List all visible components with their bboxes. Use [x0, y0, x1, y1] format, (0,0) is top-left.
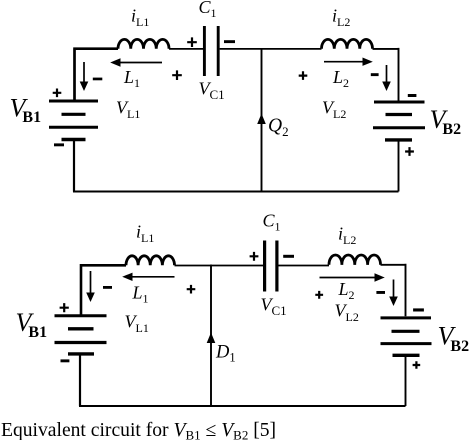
- current arrow i_L2 (pointing right, bottom circuit): [320, 273, 385, 281]
- diode D1 arrowhead (current up): [207, 333, 216, 344]
- label minus (V_L2 right, bottom circuit): [376, 291, 385, 294]
- wire V_B1 bottom to bottom rail: [73, 140, 75, 192]
- inductor L1 (top circuit): [118, 39, 169, 48]
- label plus (V_B1 top): [53, 89, 62, 98]
- label plus (V_L1 right): [172, 70, 182, 80]
- wire C1 to node (mid junction) to L2: [220, 48, 322, 50]
- label plus (C1 left): [187, 37, 197, 47]
- bottom rail wire (bottom circuit): [79, 405, 406, 407]
- capacitor C1 (bottom circuit): [265, 241, 277, 292]
- battery V_B2 (top circuit): [373, 102, 425, 140]
- battery V_B1 (bottom circuit): [55, 316, 107, 354]
- current arrow i_L1 (pointing left): [110, 58, 162, 66]
- battery V_B2 (bottom circuit): [381, 318, 432, 355]
- inductor L2 (bottom circuit): [329, 255, 381, 265]
- polarity arrow V_L2 (down, bottom circuit): [389, 280, 398, 307]
- switch Q2 arrowhead (current up): [257, 114, 266, 125]
- label minus (C1 right, bottom circuit): [283, 255, 294, 258]
- label plus (V_B2 bottom): [405, 147, 414, 156]
- label minus (V_L1 left): [93, 78, 103, 81]
- polarity arrow V_L2 (down, near V_B2): [382, 65, 391, 91]
- current arrow i_L1 (pointing left, bottom circuit): [122, 273, 174, 281]
- label minus (V_B2 top, bottom circuit): [413, 308, 424, 311]
- label plus (V_L1 right, bottom circuit): [187, 285, 196, 294]
- wire V_B2 bottom to bottom rail: [398, 141, 400, 192]
- battery V_B1 (top circuit): [49, 101, 98, 140]
- wire L2 to top-right corner down to V_B2: [373, 48, 399, 101]
- label minus (V_B1 bottom): [54, 143, 64, 146]
- polarity arrow V_L1 (down, near V_B1): [80, 62, 89, 91]
- bottom rail wire (top circuit): [73, 191, 399, 193]
- wire V_B2 bottom to bottom rail (bottom circuit): [405, 357, 407, 407]
- label minus (V_B2 top): [408, 94, 417, 97]
- inductor L1 (bottom circuit): [126, 256, 175, 266]
- wire top-left segment (V_B1 top to L1, bottom circuit): [80, 265, 126, 315]
- label plus (V_L2 left): [299, 71, 308, 80]
- capacitor C1 (top circuit): [204, 26, 218, 76]
- label minus (V_L1 left, bottom circuit): [103, 286, 112, 289]
- wire L1 to node D1-junction to capacitor C1 (bottom circuit): [175, 265, 264, 267]
- label minus (V_B1 bottom, bottom circuit): [61, 359, 70, 362]
- wire switch branch Q2 (mid vertical): [261, 48, 263, 192]
- wire top-left segment (V_B1 top to L1): [73, 49, 118, 100]
- label minus (V_L2 right): [371, 73, 379, 76]
- label plus (V_L2 left, bottom circuit): [315, 291, 323, 299]
- wire L2 to top-right corner down to V_B2 (bottom circuit): [381, 264, 406, 317]
- wire L1 to capacitor C1: [169, 48, 203, 50]
- label plus (V_B1 top, bottom circuit): [60, 303, 69, 312]
- current arrow i_L2 (pointing right): [324, 58, 373, 66]
- label plus (C1 left, bottom circuit): [250, 252, 259, 261]
- polarity arrow V_L1 (down, bottom circuit): [86, 271, 95, 302]
- inductor L2 (top circuit): [322, 39, 373, 48]
- wire C1 to L2 (bottom circuit): [278, 265, 329, 267]
- label minus (C1 right): [224, 40, 235, 43]
- label plus (V_B2 bottom, bottom circuit): [413, 361, 421, 369]
- wire V_B1 bottom to bottom rail (bottom circuit): [79, 355, 81, 407]
- wire diode branch D1 (mid vertical, bottom circuit): [210, 265, 212, 407]
